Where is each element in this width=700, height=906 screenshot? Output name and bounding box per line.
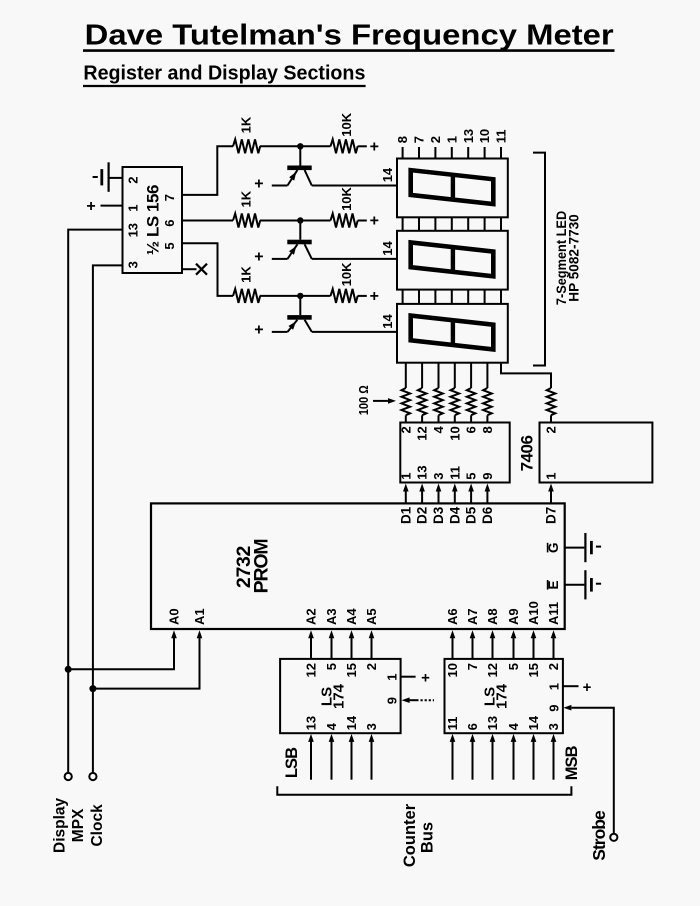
svg-text:10K: 10K xyxy=(339,262,354,286)
display interconnect stub set 1 x485 xyxy=(484,217,486,231)
svg-text:A0: A0 xyxy=(167,608,182,625)
U3 pin A3 input arrow xyxy=(329,630,335,638)
svg-text:Dave Tutelman's Frequency Mete: Dave Tutelman's Frequency Meter xyxy=(85,20,614,52)
display DS3 pin to 7406 gate 7 route xyxy=(501,363,551,388)
svg-text:15: 15 xyxy=(344,663,359,677)
svg-text:2: 2 xyxy=(544,426,559,433)
svg-text:9: 9 xyxy=(480,473,495,480)
U3 pin A11 input arrow xyxy=(551,630,557,638)
svg-text:A3: A3 xyxy=(324,608,339,625)
wire resistor #7 to 7406 gate xyxy=(550,415,552,422)
svg-text:D6: D6 xyxy=(480,506,495,524)
display interconnect stub set 2 x403 xyxy=(402,290,404,304)
wire resistor #4 to 7406 xyxy=(454,415,456,422)
wire U1 pin 2 to battery xyxy=(108,177,123,179)
svg-text:13: 13 xyxy=(415,465,430,479)
display DS3 bottom pin lead 4 xyxy=(454,363,456,388)
register U4 LS 174 (LSB) body xyxy=(280,659,401,733)
display interconnect stub set 2 x419 xyxy=(418,290,420,304)
junction dot rail A to A0 xyxy=(65,666,72,673)
X no-connect mark xyxy=(196,264,207,275)
subtitle underline xyxy=(83,85,366,87)
resistor 100 ohm #6 xyxy=(483,388,492,415)
wire U1 unused output stub xyxy=(182,268,197,270)
display DS1 top pin 13 lead xyxy=(467,147,469,159)
display DS3 bottom pin lead 6 xyxy=(486,363,488,388)
svg-text:Bus: Bus xyxy=(419,822,437,853)
resistor R1b 10K row 1 xyxy=(331,139,358,153)
svg-text:1: 1 xyxy=(125,205,140,212)
svg-text:Counter: Counter xyxy=(401,803,419,867)
wire register to PROM A9 xyxy=(513,638,515,659)
svg-text:D5: D5 xyxy=(464,506,479,524)
wire U1 pin 6 to row 2 xyxy=(182,220,233,222)
transistor Q2 base bar xyxy=(287,240,311,245)
svg-text:3: 3 xyxy=(431,473,446,480)
display DS1 top pin 1 lead xyxy=(451,147,453,159)
resistor 100 ohm #2 xyxy=(418,388,427,415)
svg-text:8: 8 xyxy=(395,136,410,143)
U5 bottom pin wire x533.5 xyxy=(533,740,535,779)
U5 bottom pin wire x513.5 xyxy=(513,740,515,779)
battery B3 minus label xyxy=(596,583,601,585)
svg-text:+: + xyxy=(370,139,379,156)
svg-text:4: 4 xyxy=(431,426,446,434)
display DS3 digit 8 figure xyxy=(411,314,494,351)
svg-text:12: 12 xyxy=(485,663,500,677)
wire register to PROM A5 xyxy=(371,638,373,659)
transistor Q3 emitter arrow xyxy=(289,321,297,329)
junction node row 2 xyxy=(297,217,303,223)
display DS3 bottom pin lead 1 xyxy=(405,363,407,388)
U3 pin A1 input arrow xyxy=(197,630,203,638)
transistor Q3 base bar xyxy=(287,315,311,320)
display interconnect stub set 2 x501 xyxy=(500,290,502,304)
register U5 LS 174 (MSB) body xyxy=(445,659,563,733)
svg-text:10: 10 xyxy=(477,129,492,143)
wire register to PROM A7 xyxy=(472,638,474,659)
svg-text:+: + xyxy=(86,198,95,215)
svg-text:2: 2 xyxy=(428,136,443,143)
display interconnect stub set 2 x435 xyxy=(434,290,436,304)
svg-text:9: 9 xyxy=(547,705,562,712)
svg-text:15: 15 xyxy=(526,663,541,677)
svg-text:D3: D3 xyxy=(431,506,446,524)
U5 bottom pin wire x452.5 xyxy=(452,740,454,779)
svg-text:MPX: MPX xyxy=(70,808,87,842)
wire PROM D5 to U2 with arrow xyxy=(470,491,472,503)
resistor 100 ohm #1 xyxy=(402,388,411,415)
svg-text:A10: A10 xyxy=(526,601,541,625)
resistor 100 ohm #5 xyxy=(467,388,476,415)
transistor Q3 collector lead to display pin 14 xyxy=(305,320,312,332)
svg-text:A7: A7 xyxy=(465,608,480,625)
wire register to PROM A4 xyxy=(351,638,353,659)
battery B1 negative long plate xyxy=(107,162,109,192)
wire register to PROM A3 xyxy=(331,638,333,659)
svg-text:10: 10 xyxy=(447,426,462,440)
display interconnect stub set 1 x403 xyxy=(402,217,404,231)
svg-text:11: 11 xyxy=(494,130,509,144)
svg-text:13: 13 xyxy=(461,129,476,143)
battery B1 minus label xyxy=(93,176,98,178)
svg-text:11: 11 xyxy=(445,717,460,731)
resistor 100 ohm #7 xyxy=(547,388,556,415)
wire row 3 base node xyxy=(260,295,331,297)
svg-text:13: 13 xyxy=(125,223,140,237)
junction node row 3 xyxy=(297,293,303,299)
svg-text:14: 14 xyxy=(380,167,395,182)
wire rail B to PROM A1 xyxy=(93,638,200,689)
svg-text:14: 14 xyxy=(526,715,541,730)
U3 pin A4 input arrow xyxy=(349,630,355,638)
transistor Q1 collector lead to display pin 14 xyxy=(305,170,312,185)
svg-text:3: 3 xyxy=(125,261,140,268)
wire U1 pin 1 xyxy=(101,205,123,207)
svg-text:12: 12 xyxy=(415,426,430,440)
svg-text:14: 14 xyxy=(380,313,395,328)
U5 bottom pin wire x553.5 xyxy=(553,740,555,779)
svg-text:9: 9 xyxy=(384,697,399,704)
svg-text:174: 174 xyxy=(494,683,511,709)
transistor Q2 collector lead to display pin 14 xyxy=(305,244,312,259)
wire U1 pin 3 to Display MPX Clock rail B xyxy=(93,265,123,772)
U4 pin 1 wire to plus xyxy=(401,676,416,678)
svg-text:Strobe: Strobe xyxy=(589,810,609,861)
svg-text:D7: D7 xyxy=(544,507,559,524)
wire G-bar to battery B2 xyxy=(565,547,585,549)
junction dot rail B to A1 xyxy=(89,685,96,692)
resistor R3b 10K row 3 xyxy=(331,289,358,303)
svg-text:1: 1 xyxy=(398,473,413,480)
transistor Q1 emitter lead xyxy=(272,185,288,187)
battery B2 long plate xyxy=(584,533,586,562)
battery B1 short plate xyxy=(100,169,103,185)
wire row 1 10K to plus xyxy=(358,145,367,147)
svg-text:4: 4 xyxy=(324,722,339,730)
U5 pin 1 wire to plus xyxy=(563,685,579,687)
U4 pin 9 dashed clock input xyxy=(409,699,419,701)
svg-text:12: 12 xyxy=(304,663,319,677)
7-segment display DS1 body xyxy=(397,159,508,218)
svg-text:8: 8 xyxy=(480,426,495,433)
wire E-bar to battery B3 xyxy=(565,584,585,586)
wire U1 pin 5 to row 3 xyxy=(182,243,233,296)
wire U1 pin 7 to row 1 xyxy=(182,146,233,195)
wire resistor #3 to 7406 xyxy=(438,415,440,422)
U3 pin A7 input arrow xyxy=(470,630,476,638)
svg-text:5: 5 xyxy=(464,473,479,480)
svg-text:11: 11 xyxy=(447,466,462,480)
wire register to PROM A11 xyxy=(553,638,555,659)
svg-text:100 Ω: 100 Ω xyxy=(356,385,371,415)
inverter U2 7406 body A xyxy=(400,423,509,483)
svg-text:5: 5 xyxy=(324,663,339,670)
wire PROM D6 to U2 with arrow xyxy=(486,491,488,503)
U3 pin A9 input arrow xyxy=(511,630,517,638)
display DS1 digit 8 figure xyxy=(411,169,494,206)
wire row 1 base node xyxy=(260,145,331,147)
wire PROM D1 to U2 with arrow xyxy=(405,491,407,503)
display DS2 digit 8 figure xyxy=(411,241,494,278)
svg-text:+: + xyxy=(370,288,379,305)
demultiplexer U1 half LS 156 body xyxy=(123,167,183,273)
svg-text:1: 1 xyxy=(444,136,459,143)
svg-text:5: 5 xyxy=(506,663,521,670)
svg-text:A6: A6 xyxy=(445,608,460,625)
svg-text:14: 14 xyxy=(380,240,395,255)
U5 bottom pin wire x492.5 xyxy=(492,740,494,779)
svg-text:5: 5 xyxy=(162,242,177,249)
wire rail A to PROM A0 xyxy=(68,638,174,670)
svg-text:1: 1 xyxy=(384,674,399,681)
svg-text:Register and Display Sections: Register and Display Sections xyxy=(83,61,365,84)
svg-text:2: 2 xyxy=(398,426,413,433)
transistor Q3 base lead xyxy=(299,296,301,315)
svg-text:14: 14 xyxy=(344,715,359,730)
display interconnect stub set 2 x468 xyxy=(467,290,469,304)
terminal circle strobe xyxy=(610,834,617,841)
transistor Q1 base lead xyxy=(299,146,301,165)
U5 pin 9 strobe wire xyxy=(572,708,614,834)
svg-text:10K: 10K xyxy=(339,186,354,210)
svg-text:7406: 7406 xyxy=(518,436,537,472)
svg-text:1K: 1K xyxy=(239,190,254,207)
wire resistor #2 to 7406 xyxy=(421,415,423,422)
U4 bottom pin wire x351.5 xyxy=(351,740,353,779)
svg-text:1: 1 xyxy=(544,473,559,480)
svg-text:7: 7 xyxy=(465,663,480,670)
svg-text:+: + xyxy=(583,679,592,696)
svg-text:2: 2 xyxy=(125,177,140,184)
svg-text:HP 5082-7730: HP 5082-7730 xyxy=(565,214,581,302)
transistor Q2 base lead xyxy=(299,221,301,240)
U5 bottom pin wire x472.5 xyxy=(472,740,474,779)
wire PROM D7 to U2B with arrow xyxy=(550,491,552,503)
wire resistor #6 to 7406 xyxy=(486,415,488,422)
wire row 3 10K to plus xyxy=(358,295,367,297)
svg-text:1K: 1K xyxy=(239,116,254,133)
battery B2 minus label xyxy=(596,546,601,548)
svg-text:A8: A8 xyxy=(485,608,500,625)
wire register to PROM A6 xyxy=(452,638,454,659)
terminal circle rail B xyxy=(89,773,96,780)
display interconnect stub set 1 x419 xyxy=(418,217,420,231)
display DS3 bottom pin lead 3 xyxy=(438,363,440,388)
wire row 2 10K to plus xyxy=(358,220,367,222)
svg-text:+: + xyxy=(254,322,263,339)
U3 pin A10 input arrow xyxy=(531,630,537,638)
svg-text:+: + xyxy=(254,175,263,192)
battery B3 long plate xyxy=(584,570,586,599)
svg-text:A4: A4 xyxy=(344,608,359,625)
transistor Q2 emitter arrow xyxy=(289,246,296,255)
svg-text:A5: A5 xyxy=(364,608,379,625)
U4 bottom pin wire x371.5 xyxy=(371,740,373,779)
U3 pin A0 input arrow xyxy=(171,630,177,638)
svg-text:7: 7 xyxy=(412,136,427,143)
display DS3 bottom pin lead 5 xyxy=(470,363,472,388)
7-segment display DS2 body xyxy=(397,231,508,290)
svg-text:6: 6 xyxy=(162,220,177,227)
display DS1 top pin 8 lead xyxy=(402,147,404,159)
wire register to PROM A8 xyxy=(492,638,494,659)
svg-text:6: 6 xyxy=(464,426,479,433)
U3 pin A5 input arrow xyxy=(369,630,375,638)
arrow for 100 ohm label xyxy=(373,400,389,402)
svg-text:Clock: Clock xyxy=(89,804,106,847)
svg-text:6: 6 xyxy=(465,723,480,730)
junction node row 1 xyxy=(297,143,303,149)
svg-text:PROM: PROM xyxy=(251,540,273,594)
svg-text:A11: A11 xyxy=(546,602,561,625)
7-segment display DS3 body xyxy=(397,304,508,363)
resistor R2b 10K row 2 xyxy=(331,214,358,228)
wire PROM D3 to U2 with arrow xyxy=(438,491,440,503)
svg-text:A2: A2 xyxy=(304,608,319,625)
U4 bottom pin wire x331.5 xyxy=(331,740,333,779)
svg-text:Display: Display xyxy=(52,797,69,853)
display interconnect stub set 1 x452 xyxy=(451,217,453,231)
svg-text:10K: 10K xyxy=(339,112,354,136)
svg-text:13: 13 xyxy=(304,716,319,730)
svg-text:+: + xyxy=(421,669,430,686)
U3 pin A2 input arrow xyxy=(308,630,314,638)
resistor R2a 1K row 2 xyxy=(233,214,260,228)
battery B2 short plate xyxy=(590,541,593,554)
wire row 2 base node xyxy=(260,220,331,222)
svg-text:LSB: LSB xyxy=(283,747,301,778)
transistor Q2 emitter lead xyxy=(272,258,288,260)
wire resistor #5 to 7406 xyxy=(470,415,472,422)
svg-text:2: 2 xyxy=(546,663,561,670)
wire PROM D4 to U2 with arrow xyxy=(454,491,456,503)
display DS3 bottom pin lead 2 xyxy=(421,363,423,388)
resistor R3a 1K row 3 xyxy=(233,289,260,303)
bracket for displays xyxy=(533,153,545,366)
title underline xyxy=(83,49,615,52)
svg-text:174: 174 xyxy=(331,683,348,709)
wire register to PROM A2 xyxy=(310,638,312,659)
display interconnect stub set 2 x485 xyxy=(484,290,486,304)
U3 pin A6 input arrow xyxy=(450,630,456,638)
svg-text:+: + xyxy=(254,249,263,266)
resistor R1a 1K row 1 xyxy=(233,139,260,153)
svg-text:A1: A1 xyxy=(192,608,207,625)
svg-text:D2: D2 xyxy=(415,507,430,524)
PROM U3 2732 body xyxy=(151,503,565,629)
wire U1 pin 13 to Display MPX Clock rail A xyxy=(68,230,122,773)
wire PROM D2 to U2 with arrow xyxy=(421,491,423,503)
svg-text:D1: D1 xyxy=(398,506,413,524)
wire resistor #1 to 7406 xyxy=(405,415,407,422)
battery B3 short plate xyxy=(590,578,593,592)
svg-text:+: + xyxy=(370,213,379,230)
transistor Q3 emitter lead xyxy=(272,331,288,333)
inverter U2 7406 body B (7th gate) xyxy=(540,423,653,483)
svg-text:2: 2 xyxy=(364,663,379,670)
svg-text:3: 3 xyxy=(364,723,379,730)
svg-text:10: 10 xyxy=(445,663,460,677)
svg-text:3: 3 xyxy=(546,723,561,730)
resistor 100 ohm #4 xyxy=(451,388,460,415)
svg-text:A9: A9 xyxy=(506,608,521,625)
counter bus bracket xyxy=(277,786,571,795)
resistor 100 ohm #3 xyxy=(434,388,443,415)
svg-text:½ LS 156: ½ LS 156 xyxy=(144,185,163,255)
display interconnect stub set 2 x452 xyxy=(451,290,453,304)
display DS1 top pin 2 lead xyxy=(434,147,436,159)
svg-text:1: 1 xyxy=(547,683,562,690)
display interconnect stub set 1 x501 xyxy=(500,217,502,231)
U4 bottom pin wire x311 xyxy=(310,740,312,779)
svg-text:13: 13 xyxy=(485,716,500,730)
display DS1 top pin 10 lead xyxy=(484,147,486,159)
display DS1 top pin 7 lead xyxy=(418,147,420,159)
U3 pin A8 input arrow xyxy=(490,630,496,638)
transistor Q1 base bar xyxy=(287,166,311,171)
svg-text:4: 4 xyxy=(506,722,521,730)
display interconnect stub set 1 x468 xyxy=(467,217,469,231)
wire register to PROM A10 xyxy=(533,638,535,659)
svg-text:D4: D4 xyxy=(447,506,462,524)
svg-text:1K: 1K xyxy=(239,266,254,283)
display interconnect stub set 1 x435 xyxy=(434,217,436,231)
svg-text:MSB: MSB xyxy=(563,745,581,780)
svg-text:7: 7 xyxy=(162,194,177,201)
transistor Q1 emitter arrow xyxy=(289,172,296,181)
terminal circle rail A xyxy=(65,773,72,780)
display DS1 top pin 11 lead xyxy=(500,147,502,159)
